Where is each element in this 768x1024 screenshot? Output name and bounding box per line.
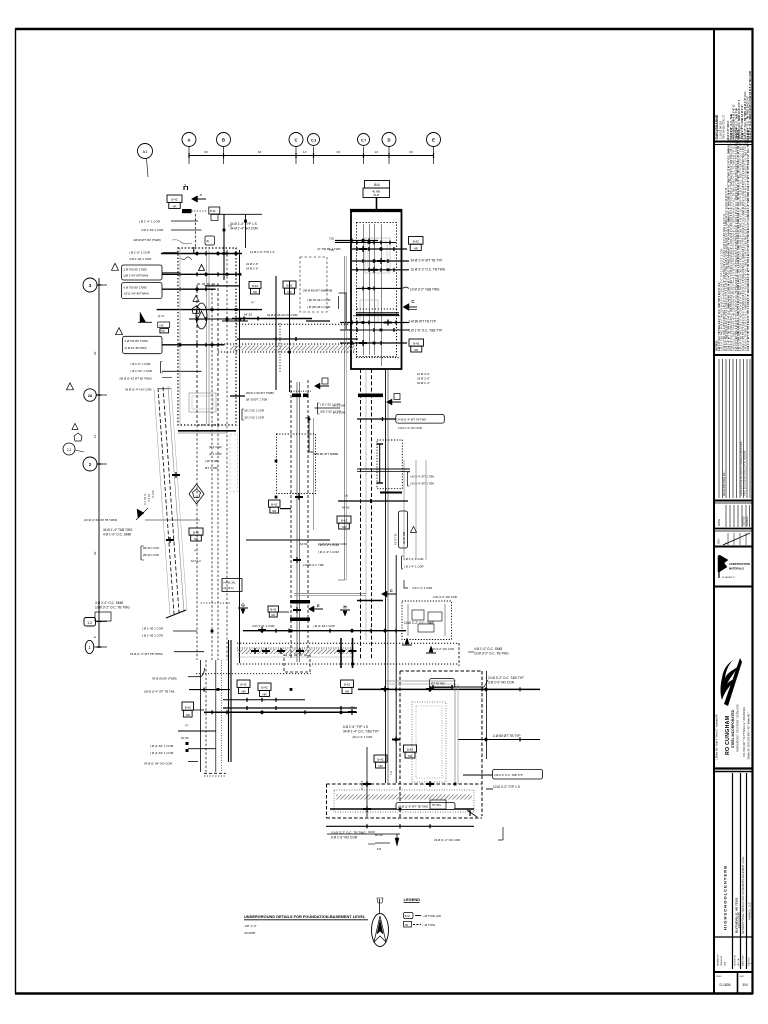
svg-text:1 Blythe Rd * Suite 4 * Hw: 1 Blythe Rd * Suite 4 * Hwy 61 * Industr…: [716, 713, 719, 760]
svg-text:P.O. BOX 427 * BLYTHEVILLE: P.O. BOX 427 * BLYTHEVILLE * ARKANSAS: [743, 707, 746, 757]
svg-text:64': 64': [258, 150, 262, 154]
svg-text:—Ø TYPE: —Ø TYPE: [422, 923, 435, 927]
svg-text:D: D: [387, 137, 390, 142]
svg-text:( Ø (1'-4" 1 COM: ( Ø (1'-4" 1 COM: [318, 550, 339, 554]
svg-text:A1: A1: [143, 149, 149, 154]
svg-text:+4Z: +4Z: [159, 324, 164, 327]
svg-text:64'-5Z: 64'-5Z: [342, 506, 350, 510]
svg-text:04 SERIES 27: 04 SERIES 27: [722, 577, 736, 579]
svg-text:NR: NR: [345, 689, 349, 693]
svg-text:4 Ø (1'-Ø" 1 COR: 4 Ø (1'-Ø" 1 COR: [252, 624, 274, 628]
svg-text:2-Ø (1'-2" NO COR: 2-Ø (1'-2" NO COR: [433, 595, 457, 599]
svg-text:10 Ø 3'-2": 10 Ø 3'-2": [417, 372, 430, 376]
svg-text:B: B: [222, 137, 225, 142]
svg-text:3 Ø 2'-0" NO COR: 3 Ø 2'-0" NO COR: [488, 681, 515, 685]
svg-text:H4NK JAL: H4NK JAL: [224, 581, 237, 585]
svg-text:2Ø'-2Z 1 COR: 2Ø'-2Z 1 COR: [143, 554, 159, 557]
svg-text:34 Ø (1'-4" NO COR: 34 Ø (1'-4" NO COR: [434, 838, 460, 842]
svg-text:2 Ø T00 80' 1TWD: 2 Ø T00 80' 1TWD: [124, 268, 147, 272]
svg-text:24': 24': [93, 351, 97, 355]
svg-text:( Ø (1'-64 1 COR: ( Ø (1'-64 1 COR: [313, 624, 335, 628]
svg-text:2/2 Ø (1'-54" 80' TB TWN0: 2/2 Ø (1'-54" 80' TB TWN0: [84, 518, 117, 522]
svg-text:2 Ø T00 80' 1TWD: 2 Ø T00 80' 1TWD: [125, 339, 148, 343]
svg-text:NR: NR: [272, 509, 276, 513]
svg-text:UNDERGROUND DETAILS FOR FOUNDA: UNDERGROUND DETAILS FOR FOUNDATION-BASEM…: [244, 914, 366, 919]
svg-text:( Ø 1'-4" 1 COR: ( Ø 1'-4" 1 COR: [139, 219, 161, 223]
svg-text:(+): (+): [194, 548, 197, 552]
svg-text:E: E: [432, 137, 435, 142]
svg-text:B-4Z: B-4Z: [171, 198, 177, 202]
svg-text:DESCRIPTION OF:: DESCRIPTION OF:: [722, 471, 726, 496]
svg-text:10 Ø: 10 Ø: [373, 193, 379, 197]
svg-text:B: B: [200, 193, 202, 197]
svg-text:JMA 04-21: JMA 04-21: [720, 955, 723, 966]
svg-text:1/8" 1'-0": 1/8" 1'-0": [245, 924, 257, 928]
svg-text:64'-0 1/8: 64'-0 1/8: [361, 780, 364, 790]
svg-text:NR: NR: [194, 537, 198, 541]
svg-text:24 Ø (1'-6" Ø'T TB TWG: 24 Ø (1'-6" Ø'T TB TWG: [398, 805, 428, 809]
svg-text:B-4Z: B-4Z: [270, 608, 276, 612]
svg-text:NR: NR: [408, 754, 412, 758]
svg-text:T1D: T1D: [329, 237, 334, 241]
svg-text:14': 14': [303, 150, 307, 154]
svg-text:2Ø Ø Ø'T 80' (TWØ): 2Ø Ø Ø'T 80' (TWØ): [134, 238, 161, 242]
svg-text:4Ø' Ø'T 80': 4Ø' Ø'T 80': [395, 533, 398, 545]
svg-text:NR: NR: [186, 713, 190, 717]
svg-text:( Ø (1'-54" 1 COM: ( Ø (1'-54" 1 COM: [150, 751, 174, 755]
svg-text:2Ø Ø (1'-4" Ø'T TB TWL: 2Ø Ø (1'-4" Ø'T TB TWL: [144, 690, 175, 694]
svg-text:Ø NORT: Ø NORT: [245, 931, 256, 935]
svg-text:2-Ø 80 Ø'T TB TYP: 2-Ø 80 Ø'T TB TYP: [409, 320, 437, 324]
svg-text:(4): (4): [206, 240, 209, 243]
svg-text:2-Ø (3'-2" NO COR: 2-Ø (3'-2" NO COR: [430, 647, 454, 651]
svg-text:2-Ø 80 Ø'T TB TYP: 2-Ø 80 Ø'T TB TYP: [493, 734, 521, 738]
svg-text:10 Ø 3'-2" TYP 1 S: 10 Ø 3'-2" TYP 1 S: [493, 785, 520, 789]
svg-text:A: A: [187, 137, 190, 142]
svg-text:10 Ø 3'-2" O.C. SMØ 2-Ø 80 1 C: 10 Ø 3'-2" O.C. SMØ 2-Ø 80 1 COR 10 Ø 3'…: [748, 71, 752, 139]
svg-text:(+): (+): [185, 723, 188, 727]
svg-text:(4' 1 COM: (4' 1 COM: [333, 411, 346, 415]
svg-text:DATE: DATE: [717, 519, 721, 526]
svg-text:NR: NR: [378, 764, 382, 768]
svg-text:34 Ø 1'-4" Ø'T TB TYP: 34 Ø 1'-4" Ø'T TB TYP: [411, 259, 443, 263]
svg-text:24 Ø 1'-6": 24 Ø 1'-6": [417, 377, 430, 381]
svg-text:64'-5Z: 64'-5Z: [300, 542, 308, 546]
svg-text:(Z' 1 COR: (Z' 1 COR: [209, 445, 222, 449]
svg-text:MATERIALS: MATERIALS: [729, 567, 744, 571]
svg-text:REG 04-110 SEAL 27: REG 04-110 SEAL 27: [723, 114, 726, 139]
svg-text:6 Ø T00 80' 1TWD: 6 Ø T00 80' 1TWD: [124, 286, 147, 290]
svg-text:DWG: DWG: [716, 976, 722, 978]
svg-text:D-1806: D-1806: [719, 983, 730, 987]
svg-text:2A: 2A: [88, 394, 93, 398]
svg-text:B-4Z: B-4Z: [413, 341, 419, 345]
svg-text:B-4Z: B-4Z: [341, 518, 347, 522]
svg-text:10 Ø 3'-2" O.C. TB TWG: 10 Ø 3'-2" O.C. TB TWG: [331, 831, 366, 835]
svg-text:NR: NR: [414, 246, 418, 250]
svg-text:02/24/20: 02/24/20: [746, 516, 749, 526]
svg-text:4'-6 1/2: 4'-6 1/2: [148, 493, 151, 502]
svg-text:B44: B44: [374, 183, 380, 187]
svg-text:[TB]: [TB]: [350, 706, 355, 710]
svg-text:( Ø (1'-54" 1 COM: ( Ø (1'-54" 1 COM: [150, 744, 174, 748]
svg-text:1/8: 1/8: [377, 847, 381, 851]
svg-text:4 Ø 1'-0" O.C. SMØ: 4 Ø 1'-0" O.C. SMØ: [103, 533, 131, 537]
svg-text:10 Ø 3'-2" O.C. T&B TYP: 10 Ø 3'-2" O.C. T&B TYP: [488, 676, 524, 680]
svg-text:( Ø 1'-0" 1 COR: ( Ø 1'-0" 1 COR: [129, 250, 151, 254]
svg-text:NR: NR: [405, 925, 409, 927]
svg-text:( Ø) 35-4Z 1 COM: ( Ø) 35-4Z 1 COM: [307, 298, 331, 302]
svg-text:( Ø 1'-54" 1 COR: ( Ø 1'-54" 1 COR: [130, 369, 152, 373]
svg-text:( Ø (1'-4" Ø'T 1 TØ6: ( Ø (1'-4" Ø'T 1 TØ6: [410, 482, 434, 486]
svg-text:SK / JA: SK / JA: [737, 958, 740, 966]
svg-text:64'-5 1/4: 64'-5 1/4: [191, 560, 201, 563]
svg-text:34 Ø (1'-4" NO COM: 34 Ø (1'-4" NO COM: [125, 388, 152, 392]
svg-text:24 Ø 1'-6": 24 Ø 1'-6": [246, 262, 258, 266]
svg-text:B-4Z: B-4Z: [286, 283, 292, 287]
svg-text:34 Ø 1'-4": 34 Ø 1'-4": [417, 381, 430, 385]
svg-text:CHECK 04: CHECK 04: [735, 955, 737, 966]
svg-text:1.2: 1.2: [87, 621, 92, 625]
svg-text:10 Ø 3'-2" O.C. TB TWG: 10 Ø 3'-2" O.C. TB TWG: [95, 606, 130, 610]
svg-text:(Ø' 30 Ø'T 1 TØ6: (Ø' 30 Ø'T 1 TØ6: [246, 398, 268, 402]
svg-text:24 Ø (1'-4" Ø'T TB TWG: 24 Ø (1'-4" Ø'T TB TWG: [398, 418, 427, 422]
svg-text:* Blythe 04 * (870) 555-2407: * Blythe 04 * (870) 555-2407 * 42 * Blyt…: [748, 712, 751, 760]
svg-text:10 Ø 3'-2" T&B TWG: 10 Ø 3'-2" T&B TWG: [410, 288, 440, 292]
svg-text:NR: NR: [271, 613, 275, 617]
svg-text:64'-5Z: 64'-5Z: [181, 736, 189, 740]
svg-text:B-4Z: B-4Z: [344, 683, 350, 687]
svg-text:34 Ø (9) 80' (TWØ): 34 Ø (9) 80' (TWØ): [152, 677, 177, 681]
svg-text:24 Ø 1'-6": 24 Ø 1'-6": [246, 267, 258, 271]
svg-text:( Ø 1'-4Z 1 COR: ( Ø 1'-4Z 1 COR: [142, 627, 163, 631]
svg-text:6 Ø 1'-6" NO COR: 6 Ø 1'-6" NO COR: [331, 836, 358, 840]
svg-text:34 Ø 1'-4" TYP 1 S: 34 Ø 1'-4" TYP 1 S: [230, 222, 257, 226]
svg-text:NR: NR: [253, 290, 257, 294]
svg-text:B-4Z: B-4Z: [377, 757, 383, 761]
svg-text:4 Ø 1'-0Z 1 COR: 4 Ø 1'-0Z 1 COR: [129, 257, 152, 261]
svg-text:B-4Z: B-4Z: [185, 705, 191, 709]
svg-text:NR: NR: [287, 290, 291, 294]
svg-text:( Ø'/ 1 TØ6: ( Ø'/ 1 TØ6: [205, 459, 219, 463]
svg-text:3 Ø 2'-0" O.C. T&B TYP: 3 Ø 2'-0" O.C. T&B TYP: [494, 773, 523, 777]
svg-text:( Ø 1'-6" 1 COR: ( Ø 1'-6" 1 COR: [130, 362, 150, 366]
svg-text:2Ø Ø 4Ø Ø'T SMØ(4Ø: 2Ø Ø 4Ø Ø'T SMØ(4Ø: [303, 289, 333, 293]
svg-text:40 HB: 40 HB: [372, 190, 380, 194]
svg-text:(2Ø 1'-64" 80'TWN4): (2Ø 1'-64" 80'TWN4): [124, 274, 149, 278]
svg-text:(Ø 4Ø' TØ6: (Ø 4Ø' TØ6: [403, 531, 406, 544]
svg-text:34 Ø (1'-54" NO COM: 34 Ø (1'-54" NO COM: [144, 762, 173, 766]
svg-text:64': 64': [204, 150, 208, 154]
svg-text:REV: REV: [717, 538, 721, 544]
svg-text:B-4Z: B-4Z: [261, 686, 267, 690]
svg-text:1/2"(1'-64" 80'TWN4): 1/2"(1'-64" 80'TWN4): [124, 292, 149, 296]
svg-text:(Ø 1'-5Z 1 COR: (Ø 1'-5Z 1 COR: [245, 416, 265, 420]
svg-text:DATE 03/2: DATE 03/2: [742, 955, 745, 966]
svg-text:( Ø 1'-4Z 1 COR: ( Ø 1'-4Z 1 COR: [142, 634, 163, 638]
svg-text:HdR&Co, LLC: HdR&Co, LLC: [748, 902, 752, 920]
svg-text:64': 64': [409, 150, 413, 154]
svg-text:2Ø9 Ø1 Ø'T SMØE: 2Ø9 Ø1 Ø'T SMØE: [314, 452, 339, 456]
svg-text:JOB 4-210156: JOB 4-210156: [738, 912, 741, 928]
svg-text:( Ø (1'-4" Ø'T 1 TØ6: ( Ø (1'-4" Ø'T 1 TØ6: [410, 475, 434, 479]
svg-text:64': 64': [93, 551, 97, 555]
svg-text:2.2: 2.2: [67, 448, 72, 452]
svg-text:CONSTRUCTION: CONSTRUCTION: [729, 562, 750, 566]
svg-text:H I G H S C H O O L C E N: H I G H S C H O O L C E N T E R B: [723, 866, 728, 930]
svg-text:34 Ø Ø 3Z-4Z NO COM: 34 Ø Ø 3Z-4Z NO COM: [318, 542, 347, 546]
svg-text:12 Ø 1'-0" TYP 1 S: 12 Ø 1'-0" TYP 1 S: [250, 250, 274, 254]
svg-text:(4'-/4': (4'-/4': [158, 314, 165, 318]
svg-text:(+): (+): [251, 300, 254, 304]
svg-text:3 Ø 2'-0" O.C. SMØ: 3 Ø 2'-0" O.C. SMØ: [95, 601, 123, 605]
svg-text:64'-0Z: 64'-0Z: [375, 833, 383, 837]
svg-text:SHT: SHT: [740, 976, 745, 978]
svg-text:4 Ø 1'-4" 1 COR: 4 Ø 1'-4" 1 COR: [412, 586, 432, 590]
svg-text:2 Ø (1'-4" NO COR: 2 Ø (1'-4" NO COR: [398, 426, 422, 430]
svg-text:—Ø TYPE (LID: —Ø TYPE (LID: [422, 914, 441, 918]
svg-text:B-4Z: B-4Z: [271, 502, 277, 506]
svg-text:34 Ø 1'-4" NO COR: 34 Ø 1'-4" NO COR: [230, 227, 258, 231]
svg-text:B-4Z: B-4Z: [210, 210, 216, 213]
svg-text:REV1 02/14/20 AS ISSUED FOR RE: REV1 02/14/20 AS ISSUED FOR REVIEW: [744, 450, 747, 496]
svg-text:( Ø (35-4Z 1 COM: ( Ø (35-4Z 1 COM: [307, 305, 331, 309]
svg-text:(4' 1 COM: (4' 1 COM: [333, 404, 346, 408]
svg-text:B-4Z: B-4Z: [413, 239, 419, 243]
svg-text:(Ø H5 K): (Ø H5 K): [224, 586, 234, 590]
svg-text:TB TWG: TB TWG: [432, 805, 441, 807]
svg-text:B-4Z: B-4Z: [407, 747, 413, 751]
svg-text:NR: NR: [414, 348, 418, 352]
svg-text:10 Ø 3'-2" O.C. TB TWG: 10 Ø 3'-2" O.C. TB TWG: [411, 268, 446, 272]
svg-text:64'-5Z: 64'-5Z: [244, 313, 252, 317]
svg-text:(4" 700 80' 1 TWD: (4" 700 80' 1 TWD: [317, 247, 341, 251]
svg-text:( Ø 1'-4" 1 COR: ( Ø 1'-4" 1 COR: [404, 565, 424, 569]
svg-text:4 Ø 1'-0" O.C. SMØ: 4 Ø 1'-0" O.C. SMØ: [474, 647, 502, 651]
svg-text:304: 304: [742, 983, 748, 987]
svg-text:(Z' 1 COR: (Z' 1 COR: [209, 452, 222, 456]
svg-text:6 Ø 1'-6" TYP 1 S: 6 Ø 1'-6" TYP 1 S: [343, 725, 368, 729]
svg-text:2Ø Ø 1'-5Z Ø'T TWØ6: 2Ø Ø 1'-5Z Ø'T TWØ6: [246, 391, 274, 395]
svg-text:(+): (+): [345, 494, 348, 498]
svg-text:2Ø'-4Z 1 COR: 2Ø'-4Z 1 COR: [143, 547, 159, 550]
svg-text:14': 14': [93, 434, 97, 438]
svg-text:4 Ø 1'-5Z 1 COR: 4 Ø 1'-5Z 1 COR: [141, 228, 164, 232]
svg-text:B-4Z: B-4Z: [240, 683, 246, 687]
svg-text:NR: NR: [342, 525, 346, 529]
svg-text:SLOPE: SLOPE: [152, 490, 155, 498]
svg-text:10 Ø 3'-2" O.C. SMØ: 10 Ø 3'-2" O.C. SMØ: [404, 621, 434, 625]
svg-text:DRAWN BY: DRAWN BY: [717, 954, 720, 966]
svg-text:D: D: [390, 589, 393, 593]
svg-text:LEGEND: LEGEND: [404, 897, 421, 902]
svg-text:2-Ø 80 O.C. T&B: 2-Ø 80 O.C. T&B: [303, 563, 324, 567]
svg-text:C: C: [294, 137, 297, 142]
svg-text:C.7: C.7: [361, 138, 366, 142]
svg-text:C.3: C.3: [311, 138, 316, 142]
svg-text:STEEL INCORPORATED: STEEL INCORPORATED: [731, 709, 735, 748]
svg-text:34 Ø 1'-4" T&B TWG: 34 Ø 1'-4" T&B TWG: [103, 528, 133, 532]
svg-text:10 Ø 3'-2" O.C. TB TWG: 10 Ø 3'-2" O.C. TB TWG: [474, 652, 509, 656]
svg-text:B-4Z: B-4Z: [252, 284, 258, 288]
svg-text:RETROFIT STEEL DETAILS FOR FOU: RETROFIT STEEL DETAILS FOR FOUNDATION-BA…: [742, 855, 745, 934]
svg-text:2Ø Ø (1'-4Z Ø'T 80 TWN0: 2Ø Ø (1'-4Z Ø'T 80 TWN0: [119, 377, 152, 381]
svg-text:NR: NR: [241, 689, 245, 693]
svg-text:(Ø 1'-5Z 1 COR: (Ø 1'-5Z 1 COR: [245, 409, 265, 413]
svg-text:FABRICATORS * ERECTORS * D: FABRICATORS * ERECTORS * DETAILERS: [737, 704, 740, 752]
svg-text:3'-0 1/4 SL: 3'-0 1/4 SL: [144, 492, 147, 505]
svg-text:B-4Z: B-4Z: [193, 530, 199, 534]
svg-text:(Ø (1'-4" 1 COR: (Ø (1'-4" 1 COR: [353, 735, 373, 739]
svg-text:34 Ø (1'-4" Ø'T TB TWN0: 34 Ø (1'-4" Ø'T TB TWN0: [130, 652, 163, 656]
svg-text:64': 64': [337, 150, 341, 154]
svg-text:NR: NR: [172, 204, 176, 208]
svg-text:34 Ø 1'-4" O.C. T&B TYP: 34 Ø 1'-4" O.C. T&B TYP: [343, 730, 379, 734]
svg-text:6 Ø 1'-6" O.C. T&B TYP: 6 Ø 1'-6" O.C. T&B TYP: [409, 329, 443, 333]
svg-text:4 Ø: 4 Ø: [390, 771, 393, 775]
svg-text:B-4Z: B-4Z: [405, 916, 411, 918]
svg-text:Ø'T 2 TØ6: Ø'T 2 TØ6: [205, 466, 218, 470]
svg-text:S401(SBARNE: S401(SBARNE: [715, 114, 719, 139]
svg-text:14': 14': [374, 150, 378, 154]
svg-text:12 Ø 1'-0" Ø'T TB TYP 3 Ø 2': 12 Ø 1'-0" Ø'T TB TYP 3 Ø 2'-0" TYP 1 S …: [747, 129, 750, 351]
svg-text:( Ø 1'-4" 1 COR: ( Ø 1'-4" 1 COR: [404, 557, 424, 561]
svg-text:NR: NR: [262, 692, 266, 696]
svg-text:G: G: [241, 603, 245, 608]
svg-text:(2 Ø 64" 80'TWN): (2 Ø 64" 80'TWN): [125, 346, 147, 350]
svg-text:34 Ø Ø 35-4Z NO COM: 34 Ø Ø 35-4Z NO COM: [267, 313, 298, 317]
